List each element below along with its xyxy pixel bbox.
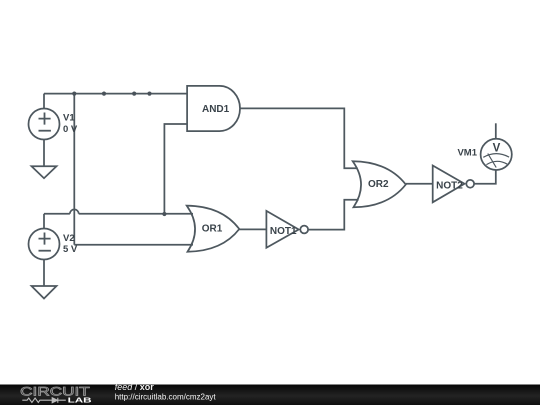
junction dot at V1 branch — [72, 92, 76, 96]
voltmeter VM1 body — [481, 139, 512, 170]
VM1 gauge lower arc — [486, 161, 507, 164]
wire: V1 bottom lead to ground — [43, 140, 45, 167]
svg-text:LAB: LAB — [68, 396, 93, 405]
svg-text:V2: V2 — [63, 233, 75, 244]
wire: vertical branch of net A at x=74 — [73, 94, 75, 245]
wire: V2 rail to OR1 input A — [79, 213, 193, 215]
footer bar — [0, 385, 540, 405]
wire: AND1 output to OR2 input A — [240, 108, 358, 168]
AND gate AND1 body — [187, 86, 240, 131]
junction dot on top rail 4 — [147, 92, 151, 96]
NOT2 inversion bubble — [466, 180, 474, 188]
junction dot at AND1 input B branch — [162, 212, 166, 216]
wire: branch from V2 rail up to AND1 input B — [164, 124, 187, 214]
junction dot on top rail 2 — [102, 92, 106, 96]
svg-text:feed / xor: feed / xor — [115, 382, 155, 392]
OR gate OR2 body — [353, 161, 406, 207]
V1 plus sign — [39, 113, 51, 125]
svg-text:NOT1: NOT1 — [270, 226, 297, 237]
svg-text:5 V: 5 V — [63, 244, 78, 255]
wire: VM1 top stub — [495, 123, 497, 139]
svg-text:OR2: OR2 — [368, 179, 389, 190]
NOT1 inversion bubble — [300, 226, 308, 234]
wire: V2 rail left of hop — [44, 213, 70, 215]
svg-text:V1: V1 — [63, 113, 75, 124]
wire: V1 top lead — [43, 94, 45, 109]
VM1 needle — [488, 154, 496, 168]
svg-text:VM1: VM1 — [457, 147, 477, 158]
wire: top rail from V1 to AND1 input A — [44, 93, 187, 95]
V1 minus sign — [39, 130, 51, 132]
ground symbol below V2 — [32, 286, 57, 299]
CircuitLab logo waveform resistor symbol — [22, 398, 52, 402]
wire: NOT2 output to VM1 negative terminal — [474, 170, 496, 184]
ground symbol below V1 — [32, 166, 57, 178]
svg-text:NOT2: NOT2 — [436, 181, 463, 192]
wire hop over net A vertical — [70, 209, 79, 213]
voltage source V1 body — [29, 109, 60, 140]
NOT gate NOT1 body — [266, 211, 298, 248]
wire: OR2 output to NOT2 input — [406, 183, 433, 185]
svg-text:AND1: AND1 — [202, 104, 230, 115]
VM1 gauge upper arc — [483, 154, 509, 158]
svg-text:V: V — [493, 142, 501, 154]
wire: NOT1 output to OR2 input B — [308, 200, 359, 230]
V2 minus sign — [39, 250, 51, 252]
wire: V2 bottom lead to ground — [43, 259, 45, 286]
voltage source V2 body — [29, 229, 60, 260]
junction dot on top rail 3 — [132, 92, 136, 96]
CircuitLab logo diode — [52, 398, 66, 403]
wire: V2 top lead — [43, 214, 45, 229]
V2 plus sign — [39, 233, 51, 245]
svg-text:http://circuitlab.com/cmz2ayt: http://circuitlab.com/cmz2ayt — [115, 392, 217, 401]
OR gate OR1 body — [187, 206, 240, 252]
wire: OR1 output to NOT1 input — [239, 228, 266, 230]
svg-text:0 V: 0 V — [63, 124, 78, 135]
svg-text:OR1: OR1 — [202, 223, 223, 234]
NOT gate NOT2 body — [433, 166, 465, 203]
wire: bottom rail from branch to OR1 input B — [74, 244, 193, 246]
